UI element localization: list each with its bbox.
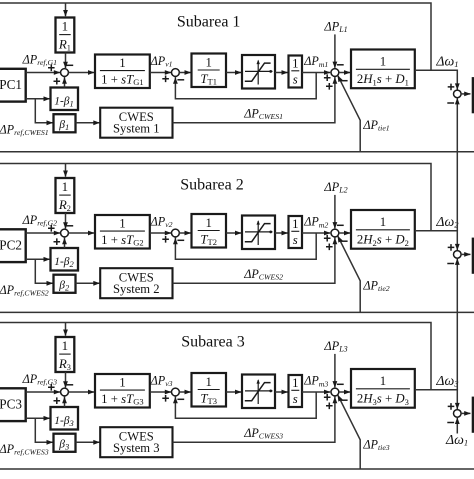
- minus sign generator sum tie input: [341, 399, 348, 401]
- svg-text:1: 1: [62, 338, 69, 353]
- wire governor sum to governor block: [68, 232, 94, 234]
- saturation limiter block area 2: [242, 216, 275, 250]
- wire MPC1 to beta blocks: [26, 98, 50, 100]
- block inertia 1/(2H1s+D1): [351, 50, 415, 89]
- MPC1 controller block: [0, 69, 26, 102]
- summing junction turbine area 2: [172, 229, 180, 237]
- svg-text:System 1: System 1: [113, 122, 160, 136]
- plus sign at governor sum left input: [48, 225, 55, 232]
- wire governor to turbine summing junction: [150, 391, 171, 393]
- summing junction generator area 1: [331, 69, 339, 77]
- svg-text:1: 1: [205, 216, 211, 230]
- svg-text:Subarea 3: Subarea 3: [181, 333, 245, 350]
- wire tie-line row area 2: [0, 311, 474, 313]
- saturation limiter block area 1: [242, 55, 275, 89]
- minus sign at tie sum bottom input: [447, 263, 454, 265]
- minus sign generator sum top input: [337, 383, 344, 385]
- svg-text:System 3: System 3: [113, 441, 160, 455]
- wire MPC3 to beta blocks: [26, 417, 50, 419]
- wire frequency feedback into 1/R2: [65, 164, 67, 177]
- wire turbine block to rate limiter: [226, 391, 241, 393]
- block 1/R2 droop: [56, 178, 75, 213]
- svg-text:1: 1: [119, 56, 125, 70]
- wire tie-line row area 3: [0, 468, 474, 470]
- wire turbine rate feedback loop: [175, 392, 316, 418]
- summing junction tie frequency area 2: [454, 251, 462, 259]
- cropped tie-line block at right edge area 1: [473, 78, 474, 112]
- plus sign generator sum bottom input: [326, 83, 333, 90]
- svg-text:1: 1: [119, 376, 125, 390]
- minus sign generator sum top input: [337, 224, 344, 226]
- wire load disturbance dP_L2 down: [334, 195, 336, 228]
- MPC3 controller block: [0, 388, 26, 421]
- wire turbine sum to turbine block: [179, 391, 190, 393]
- wire tie-line row area 1: [0, 151, 474, 153]
- saturation axis horizontal: [245, 390, 273, 392]
- wire generator sum to inertia block: [339, 72, 350, 74]
- plus sign at governor sum left input: [48, 65, 55, 72]
- summing junction tie frequency area 1: [454, 90, 462, 98]
- wire beta3 to CWES system: [76, 441, 100, 443]
- minus sign generator sum top input: [337, 64, 344, 66]
- wire integrator to generator summing junction: [302, 391, 330, 393]
- MPC2 controller block: [0, 229, 26, 262]
- saturation curve: [245, 224, 271, 242]
- wire tie sum output to cropped block: [461, 412, 470, 414]
- block beta3: [54, 434, 76, 452]
- wire tie-line power dP_tie3 into generator sum: [338, 395, 360, 469]
- plus sign at tie sum top input: [448, 403, 455, 410]
- saturation axis horizontal: [245, 70, 273, 72]
- wire MPC2 to governor summing junction: [26, 232, 60, 234]
- wire load disturbance dP_L3 down: [334, 354, 336, 387]
- block 1-beta2: [51, 248, 79, 271]
- wire turbine block to rate limiter: [226, 72, 241, 74]
- wire CWES output dP_CWES1 to generator sum: [173, 77, 335, 123]
- svg-text:MPC3: MPC3: [0, 396, 22, 411]
- wire limiter to integrator: [275, 232, 288, 234]
- block 1/R3 droop: [56, 337, 75, 372]
- svg-text:1: 1: [205, 375, 211, 389]
- wire tie sum output to cropped block: [461, 93, 470, 95]
- svg-text:System 2: System 2: [113, 282, 160, 296]
- svg-text:2H3s + D3: 2H3s + D3: [357, 391, 409, 406]
- svg-text:1: 1: [62, 179, 69, 194]
- block inertia 1/(2H3s+D3): [351, 369, 415, 408]
- plus sign at governor sum left input: [48, 384, 55, 391]
- summing junction tie frequency area 3: [454, 410, 462, 418]
- block CWES System 3: [100, 427, 172, 457]
- minus sign at governor sum top input: [66, 225, 73, 227]
- wire CWES output dP_CWES2 to generator sum: [173, 238, 335, 284]
- minus sign at turbine sum bottom input: [177, 398, 184, 400]
- wire 1/R2 output down to governor sum: [65, 213, 67, 229]
- minus sign generator sum tie input: [341, 80, 348, 82]
- cropped tie-line block at right edge area 3: [473, 398, 474, 432]
- summing junction turbine area 3: [172, 388, 180, 396]
- wire turbine block to rate limiter: [226, 232, 241, 234]
- saturation axis vertical: [257, 61, 259, 85]
- block turbine 1/T_T3: [192, 373, 227, 407]
- block CWES System 2: [100, 268, 172, 298]
- plus sign at turbine sum left input: [162, 236, 169, 243]
- saturation axis horizontal: [245, 231, 273, 233]
- saturation curve: [245, 63, 271, 81]
- wire integrator to generator summing junction: [302, 72, 330, 74]
- svg-text:1: 1: [62, 19, 69, 34]
- svg-text:1: 1: [292, 376, 298, 390]
- saturation curve: [245, 383, 271, 401]
- svg-text:2H1s + D1: 2H1s + D1: [357, 72, 409, 87]
- plus sign at tie sum top input: [448, 84, 455, 91]
- wire generator sum to inertia block: [339, 232, 350, 234]
- svg-text:1: 1: [380, 55, 386, 69]
- wire beta1 to CWES system: [76, 122, 100, 124]
- summing junction governor area 1: [61, 69, 69, 77]
- wire frequency feedback path area 2: [0, 164, 431, 231]
- block governor 1/(1+sT_G3): [95, 374, 150, 408]
- wire load disturbance dP_L1 down: [334, 34, 336, 67]
- wire delta_omega1 stub into area-3 tie sum: [456, 418, 458, 434]
- svg-text:1: 1: [380, 215, 386, 229]
- wire tie-line power dP_tie2 into generator sum: [338, 236, 360, 312]
- wire delta_omega3 up to area-2 tie sum: [456, 259, 458, 391]
- wire 1-beta1 up to governor sum: [64, 77, 66, 88]
- wire frequency output delta_omega1: [415, 70, 458, 89]
- block 1-beta3: [51, 407, 79, 430]
- svg-text:1: 1: [292, 56, 298, 70]
- plus sign generator sum bottom input: [326, 244, 333, 251]
- block integrator 1/s area 3: [289, 375, 303, 407]
- summing junction generator area 3: [331, 388, 339, 396]
- wire 1-beta2 up to governor sum: [64, 237, 66, 248]
- wire 1-beta3 up to governor sum: [64, 396, 66, 407]
- plus sign at tie sum top input: [448, 244, 455, 251]
- wire 1/R3 output down to governor sum: [65, 372, 67, 388]
- saturation limiter block area 3: [242, 375, 275, 409]
- wire governor sum to governor block: [68, 72, 94, 74]
- plus sign generator sum bottom input: [326, 403, 333, 410]
- plus sign at governor sum bottom input: [54, 238, 61, 245]
- block beta1: [54, 114, 76, 132]
- saturation axis vertical: [257, 380, 259, 404]
- svg-text:Subarea 1: Subarea 1: [177, 14, 241, 31]
- block inertia 1/(2H2s+D2): [351, 210, 415, 249]
- wire MPC3 to governor summing junction: [26, 391, 60, 393]
- wire limiter to integrator: [275, 72, 288, 74]
- wire delta_omega2 up to area-1 tie sum: [456, 98, 458, 231]
- svg-text:1: 1: [380, 374, 386, 388]
- wire frequency feedback path area 3: [0, 323, 431, 390]
- wire MPC1 to governor summing junction: [26, 72, 60, 74]
- wire turbine sum to turbine block: [179, 72, 190, 74]
- minus sign at turbine sum bottom input: [177, 79, 184, 81]
- wire frequency output delta_omega3: [415, 390, 458, 409]
- block governor 1/(1+sT_G1): [95, 55, 150, 89]
- block governor 1/(1+sT_G2): [95, 215, 150, 249]
- summing junction governor area 2: [61, 229, 69, 237]
- wire tie-line power dP_tie1 into generator sum: [338, 76, 360, 152]
- wire frequency feedback into 1/R1: [65, 3, 67, 16]
- svg-text:1: 1: [205, 56, 211, 70]
- block turbine 1/T_T1: [192, 54, 227, 88]
- svg-text:s: s: [293, 72, 298, 86]
- plus sign generator sum left input: [324, 74, 331, 81]
- block turbine 1/T_T2: [192, 214, 227, 248]
- minus sign at governor sum top input: [66, 64, 73, 66]
- summing junction generator area 2: [331, 229, 339, 237]
- minus sign at governor sum top input: [66, 384, 73, 386]
- wire integrator to generator summing junction: [302, 232, 330, 234]
- wire governor sum to governor block: [68, 391, 94, 393]
- summing junction governor area 3: [61, 388, 69, 396]
- plus sign generator sum left input: [324, 235, 331, 242]
- block integrator 1/s area 1: [289, 56, 303, 88]
- wire turbine rate feedback loop: [175, 233, 316, 259]
- plus sign at turbine sum left input: [162, 76, 169, 83]
- wire beta2 to CWES system: [76, 282, 100, 284]
- plus sign generator sum left input: [324, 394, 331, 401]
- svg-text:MPC2: MPC2: [0, 237, 22, 252]
- svg-text:1: 1: [119, 217, 125, 231]
- wire governor to turbine summing junction: [150, 232, 171, 234]
- summing junction turbine area 1: [172, 69, 180, 77]
- block 1/R1 droop: [56, 18, 75, 53]
- minus sign at tie sum bottom input: [447, 102, 454, 104]
- block integrator 1/s area 2: [289, 216, 303, 248]
- wire CWES output dP_CWES3 to generator sum: [173, 397, 335, 443]
- wire governor to turbine summing junction: [150, 72, 171, 74]
- wire turbine rate feedback loop: [175, 73, 316, 99]
- wire frequency feedback path area 1: [0, 3, 431, 70]
- minus sign generator sum tie input: [341, 240, 348, 242]
- wire tie sum output to cropped block: [461, 253, 470, 255]
- svg-text:s: s: [293, 392, 298, 406]
- wire 1/R1 output down to governor sum: [65, 53, 67, 69]
- minus sign at turbine sum bottom input: [177, 239, 184, 241]
- wire frequency output delta_omega2: [415, 231, 458, 250]
- block CWES System 1: [100, 108, 172, 138]
- wire MPC2 to beta blocks: [26, 258, 50, 260]
- svg-text:s: s: [293, 233, 298, 247]
- saturation axis vertical: [257, 221, 259, 245]
- cropped tie-line block at right edge area 2: [473, 239, 474, 273]
- minus sign at tie sum bottom input: [447, 422, 454, 424]
- svg-text:Subarea 2: Subarea 2: [180, 177, 244, 194]
- svg-text:2H2s + D2: 2H2s + D2: [357, 232, 409, 247]
- wire generator sum to inertia block: [339, 391, 350, 393]
- plus sign at turbine sum left input: [162, 395, 169, 402]
- block beta2: [54, 275, 76, 293]
- wire limiter to integrator: [275, 391, 288, 393]
- plus sign at governor sum bottom input: [54, 397, 61, 404]
- svg-text:MPC1: MPC1: [0, 77, 22, 92]
- block 1-beta1: [51, 88, 79, 111]
- wire frequency feedback into 1/R3: [65, 323, 67, 336]
- plus sign at governor sum bottom input: [54, 78, 61, 85]
- svg-text:1: 1: [292, 217, 298, 231]
- wire turbine sum to turbine block: [179, 232, 190, 234]
